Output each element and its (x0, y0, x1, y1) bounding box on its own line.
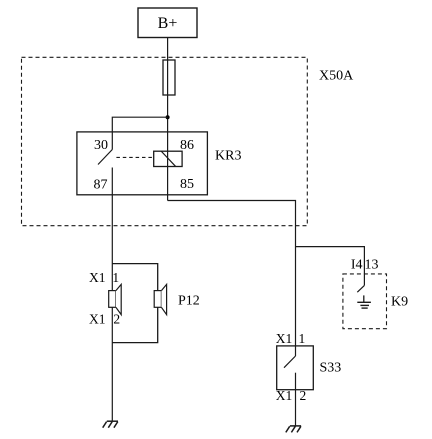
wire pin 87 down to P12 and ground (111, 168, 113, 422)
svg-text:30: 30 (94, 138, 108, 153)
node junction (166, 115, 170, 119)
wire branch to K9 via I4:13 (296, 247, 365, 286)
speaker symbol left (on P12 left lead) (109, 284, 122, 314)
connector X50A (dashed boundary) (22, 57, 308, 225)
dashed actuation link (116, 156, 153, 158)
svg-text:87: 87 (94, 178, 108, 193)
speaker symbol right (on P12 right lead) (154, 284, 166, 314)
svg-text:X1: X1 (276, 331, 293, 346)
svg-text:K9: K9 (391, 295, 408, 310)
switch contact S33 (284, 346, 296, 368)
wire B+ to coil top (vertical, through fuse) (167, 37, 169, 201)
ground (chassis) under S33 (286, 426, 301, 433)
svg-text:2: 2 (300, 388, 307, 403)
wire coil pin 85 to S33 (168, 201, 296, 346)
svg-text:P12: P12 (178, 294, 200, 309)
svg-text:X1: X1 (89, 311, 106, 326)
connector I4 pin 13 (351, 258, 379, 273)
svg-text:X1: X1 (276, 388, 293, 403)
ground (earth) inside K9 (357, 295, 371, 308)
svg-text:1: 1 (112, 270, 119, 285)
horn P12 box (112, 264, 157, 343)
svg-text:2: 2 (113, 311, 120, 326)
K9 contact blade (357, 285, 364, 292)
svg-text:B+: B+ (158, 15, 178, 32)
battery B+ (138, 8, 197, 38)
svg-text:X50A: X50A (319, 68, 354, 83)
svg-text:13: 13 (365, 258, 379, 273)
fuse (163, 60, 175, 95)
relay K9 (dashed box) (343, 274, 387, 329)
svg-text:KR3: KR3 (215, 148, 241, 163)
ground (chassis) under P12 (103, 421, 118, 428)
svg-text:X1: X1 (89, 270, 106, 285)
svg-text:S33: S33 (320, 360, 342, 375)
svg-text:1: 1 (299, 331, 306, 346)
svg-text:85: 85 (180, 177, 194, 192)
wire S33 lower contact to ground (295, 373, 297, 426)
wire junction to relay pin 30 (112, 117, 167, 149)
relay coil (154, 151, 182, 166)
relay KR3 box (77, 132, 208, 195)
switch S33 box (277, 346, 314, 390)
svg-text:I4: I4 (351, 258, 363, 273)
relay contact blade (98, 150, 112, 165)
